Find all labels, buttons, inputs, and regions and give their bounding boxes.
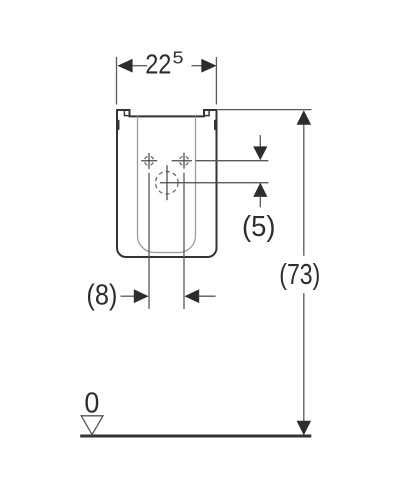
svg-text:(73): (73) bbox=[279, 259, 320, 291]
svg-text:(5): (5) bbox=[242, 211, 276, 243]
svg-text:22: 22 bbox=[145, 47, 171, 79]
svg-text:5: 5 bbox=[173, 47, 184, 67]
svg-text:0: 0 bbox=[84, 388, 99, 420]
svg-text:(8): (8) bbox=[86, 279, 117, 311]
